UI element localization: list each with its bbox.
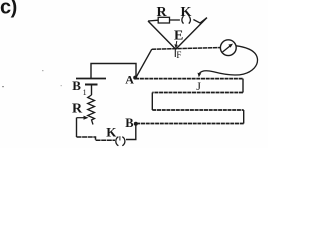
triangle top edge right kink [193, 18, 207, 23]
wire battery top to A [91, 64, 136, 79]
rheostat wiper arrow [77, 117, 86, 119]
triangle top edge left segment [148, 19, 158, 22]
battery B1 short plate [85, 84, 98, 86]
svg-text:E: E [174, 29, 183, 44]
rheostat R zigzag [88, 95, 95, 125]
node A [133, 76, 137, 80]
key K subscript tick [119, 136, 121, 140]
triangle top edge middle segment [170, 19, 180, 21]
contact F tick [174, 50, 176, 58]
wire wiper down to bottom [76, 118, 78, 137]
potentiometer wire row 1 [135, 78, 243, 80]
jockey arrowhead at J [198, 73, 202, 78]
triangle right edge [176, 18, 207, 50]
key K2 right contact [189, 16, 191, 23]
svg-text:B: B [72, 78, 81, 93]
wire galvanometer to jockey J (curved) [199, 46, 257, 75]
potentiometer wire row 3 [152, 109, 243, 111]
key K plug symbol [116, 137, 119, 146]
wire right vertical row3-row4 [243, 110, 245, 124]
svg-text:F: F [176, 50, 181, 60]
svg-text:R: R [157, 5, 168, 20]
svg-text:K: K [106, 124, 117, 139]
svg-text:B: B [125, 116, 133, 130]
wire key to B [126, 124, 136, 140]
svg-text:J: J [196, 79, 201, 93]
galvanometer G body [220, 40, 236, 56]
wire E-line to galvanometer [152, 48, 221, 50]
arrow E to contact [175, 41, 178, 46]
node B [134, 122, 138, 126]
svg-text:A: A [125, 73, 134, 87]
potentiometer wire row 2 [152, 92, 243, 94]
scan speck mid [42, 70, 44, 71]
triangle left edge [148, 21, 176, 49]
scan speck left [2, 86, 4, 87]
scan speck right [61, 85, 63, 86]
wire battery to rheostat [91, 85, 93, 96]
galvanometer needle [223, 46, 231, 52]
wire left vertical row2-row3 [151, 93, 153, 111]
wire right vertical row1-row2 [242, 79, 244, 93]
key K2 left contact [182, 16, 184, 23]
battery B1 long plate [76, 78, 106, 80]
svg-text:c): c) [0, 0, 17, 19]
resistance box R [158, 17, 169, 23]
potentiometer wire row 4 [136, 123, 244, 125]
svg-text:R: R [72, 101, 83, 116]
svg-text:1: 1 [83, 88, 87, 97]
wire A to E-line diagonal [136, 49, 152, 78]
bottom wire to key [77, 137, 116, 140]
svg-text:K: K [181, 5, 192, 20]
